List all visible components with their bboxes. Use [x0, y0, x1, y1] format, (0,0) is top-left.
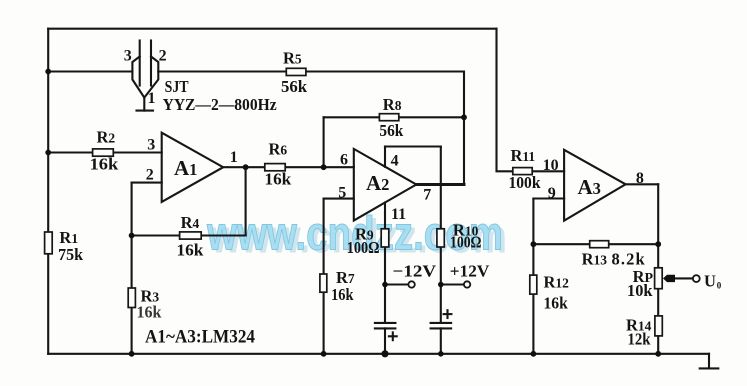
wire crystal to R5 to right rail — [158, 70, 464, 72]
terminal -12V — [408, 281, 414, 287]
wire pin4 top link — [385, 145, 441, 147]
junction R7 / bottom rail — [321, 351, 327, 357]
capacitor C1 — [375, 323, 397, 340]
svg-text:R6: R6 — [269, 140, 288, 159]
svg-text:12k: 12k — [628, 330, 652, 349]
resistor R6 — [265, 164, 285, 171]
svg-text:3: 3 — [124, 48, 132, 65]
wire pin5-R7 vertical — [323, 199, 325, 354]
transducer pin 1 lead — [143, 98, 145, 111]
svg-text:SJT: SJT — [165, 77, 189, 96]
svg-text:100k: 100k — [509, 173, 542, 192]
junction C1 / bottom rail — [381, 350, 388, 357]
junction left rail / R2 line — [45, 150, 51, 156]
resistor R1 — [45, 232, 53, 254]
wire RP wiper to U0 terminal — [672, 277, 693, 279]
svg-text:75k: 75k — [58, 245, 84, 264]
svg-text:4: 4 — [391, 153, 399, 170]
junction A1 out / R4 branch — [243, 164, 249, 170]
wire +12V tap — [441, 283, 464, 285]
resistor R10 — [437, 229, 444, 247]
op-amp A3 — [564, 150, 626, 221]
terminal +12V — [464, 281, 470, 287]
svg-text:2: 2 — [159, 48, 167, 65]
transducer SJT crystal outline — [132, 57, 158, 98]
wire R13 line — [533, 243, 658, 245]
svg-text:A3: A3 — [578, 175, 601, 199]
wire C2 to ground rail — [440, 328, 442, 353]
wire crystal line left — [48, 70, 132, 72]
junction left rail / crystal line — [45, 69, 51, 75]
junction R6 / R8 branch — [321, 164, 327, 170]
resistor R13 — [590, 241, 609, 248]
svg-text:R5: R5 — [283, 48, 302, 67]
label U0 — [704, 272, 722, 291]
svg-text:R2: R2 — [97, 127, 116, 146]
svg-text:10k: 10k — [627, 281, 653, 300]
wire pin2-R3 vertical — [131, 183, 133, 354]
svg-text:16k: 16k — [90, 155, 120, 174]
svg-text:A2: A2 — [366, 171, 389, 195]
wire right vertical x464 — [463, 72, 465, 185]
capacitor C2 — [431, 310, 452, 328]
junction +12V tap — [438, 282, 444, 288]
wire R2 line to A1 pin3 — [48, 151, 162, 153]
svg-text:3: 3 — [147, 136, 155, 153]
wire top-right drop to R11 — [497, 29, 514, 172]
resistor R3 — [128, 288, 135, 308]
wire A2 pin11 to C1 — [384, 203, 386, 323]
wire A3 pin9 stub — [533, 197, 564, 199]
svg-text:R4: R4 — [181, 213, 200, 232]
svg-text:R8: R8 — [383, 95, 402, 114]
junction R3 / bottom rail — [129, 351, 135, 357]
svg-text:1: 1 — [230, 149, 238, 166]
wire output-RP-R14 vertical — [657, 184, 659, 353]
svg-text:5: 5 — [338, 185, 346, 202]
wire top rail — [48, 28, 496, 30]
transducer pin 1 bar — [137, 110, 154, 112]
wire A2 output — [416, 183, 464, 186]
wire A2 pin5 stub — [324, 198, 354, 200]
svg-text:7: 7 — [423, 186, 431, 203]
wire C1 to ground rail — [384, 328, 386, 353]
wire R8 left branch down — [323, 117, 325, 167]
svg-text:11: 11 — [391, 206, 406, 223]
svg-text:A1: A1 — [174, 156, 197, 180]
op-amp A1 — [162, 133, 224, 202]
svg-text:16k: 16k — [331, 285, 354, 304]
junction C2 / bottom rail — [438, 351, 444, 357]
junction R4 / pin2 vertical — [129, 233, 135, 239]
wire A3 output — [626, 183, 659, 185]
svg-text:16k: 16k — [137, 303, 163, 322]
junction R8 / right vertical — [461, 114, 467, 120]
svg-text:10: 10 — [543, 157, 559, 174]
wire bottom rail — [48, 353, 709, 355]
transducer electrode pin 3 — [139, 41, 141, 86]
svg-text:U: U — [704, 272, 716, 291]
svg-text:YYZ—2—800Hz: YYZ—2—800Hz — [163, 95, 277, 114]
svg-text:6: 6 — [340, 151, 348, 168]
svg-text:R138.2k: R138.2k — [582, 249, 646, 268]
svg-text:2: 2 — [146, 167, 154, 184]
wire R8 feedback — [324, 116, 464, 118]
junction -12V tap — [382, 282, 388, 288]
wire pin9-R12 vertical — [532, 199, 534, 354]
junction R14 / bottom rail — [655, 351, 661, 357]
svg-text:9: 9 — [548, 185, 556, 202]
wire R11 to A3 pin10 — [513, 170, 564, 172]
svg-text:100Ω: 100Ω — [450, 233, 482, 252]
wire A1 pin2 stub — [132, 182, 162, 184]
resistor R8 — [379, 114, 398, 121]
potentiometer RP — [655, 268, 675, 289]
svg-text:56k: 56k — [379, 121, 404, 140]
svg-text:16k: 16k — [177, 241, 205, 260]
svg-text:16k: 16k — [544, 293, 569, 312]
junction pin9 / R13 / R12 — [531, 241, 537, 247]
wire A2 pin4 stub — [384, 147, 386, 167]
svg-text:1: 1 — [148, 90, 156, 107]
resistor R14 — [655, 316, 662, 336]
wire pin4-R10 vertical to C2 — [440, 147, 442, 323]
wire R4 line — [132, 234, 246, 236]
svg-text:100Ω: 100Ω — [347, 238, 380, 257]
svg-text:R12: R12 — [544, 272, 570, 291]
svg-text:A1~A3:LM324: A1~A3:LM324 — [145, 328, 255, 348]
svg-text:+12V: +12V — [450, 261, 490, 280]
svg-text:0: 0 — [717, 280, 722, 290]
resistor R9 — [381, 229, 389, 247]
resistor R5 — [286, 68, 306, 75]
op-amp A2 — [354, 149, 417, 221]
svg-text:56k: 56k — [281, 77, 308, 96]
wire -12V tap — [385, 283, 408, 285]
svg-text:R7: R7 — [336, 268, 355, 287]
watermark www.cndzz.com — [206, 207, 507, 263]
svg-text:−12V: −12V — [393, 261, 437, 280]
ground — [700, 354, 719, 369]
wire A1 output to A2 pin6 — [223, 166, 354, 168]
resistor R12 — [530, 275, 537, 294]
resistor R11 — [513, 168, 532, 175]
wire R4 branch vertical — [245, 167, 247, 235]
terminal U0 — [693, 275, 700, 282]
junction R13 / RP column — [655, 241, 661, 247]
svg-text:8: 8 — [636, 170, 644, 187]
junction R12 / bottom rail — [531, 351, 537, 357]
resistor R7 — [320, 274, 327, 292]
wire left rail — [47, 29, 49, 354]
transducer electrode pin 2 — [150, 41, 152, 86]
svg-text:16k: 16k — [265, 170, 293, 189]
resistor R2 — [93, 149, 114, 156]
resistor R4 — [180, 232, 202, 239]
svg-text:R11: R11 — [511, 146, 536, 165]
